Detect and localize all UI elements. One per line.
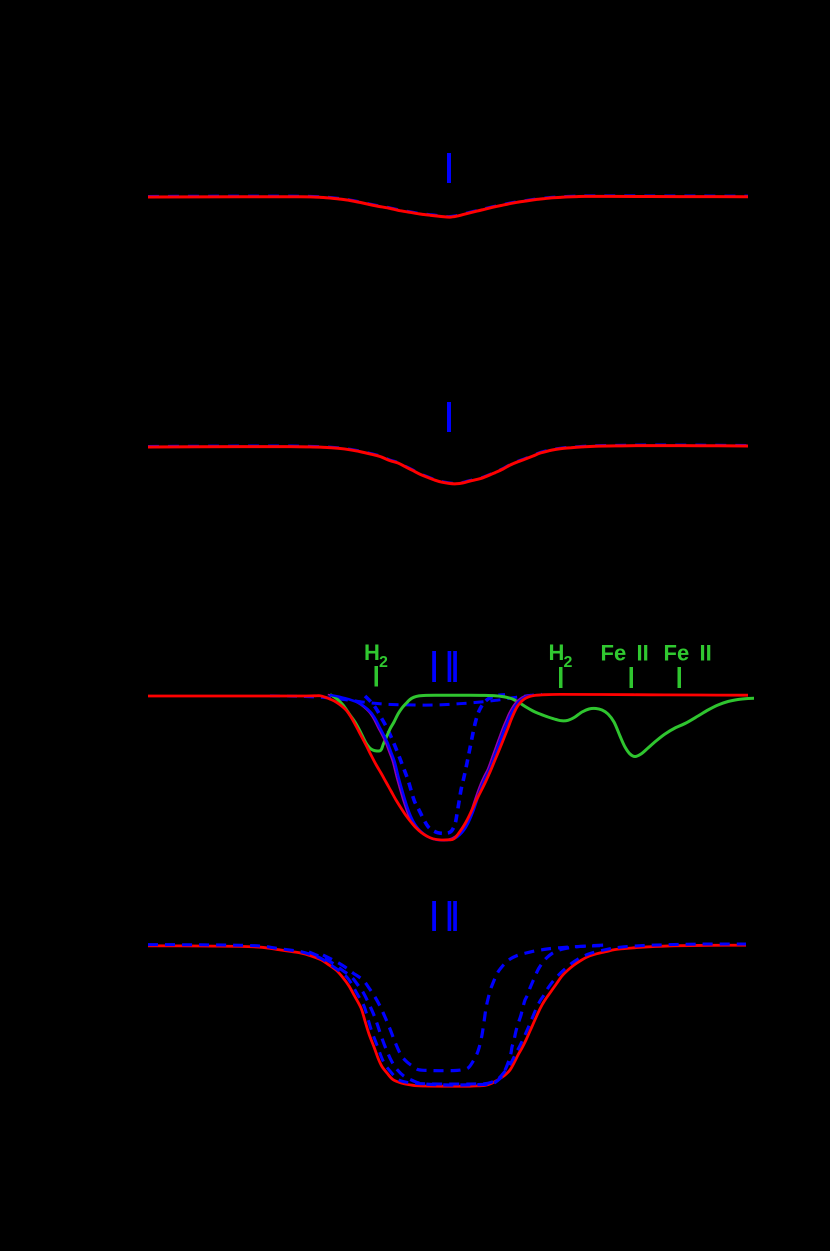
panel 2 blue tick — [447, 402, 451, 432]
panel 4 blue tick 2 — [448, 901, 452, 931]
panel 4 blue tick 1 — [432, 901, 436, 931]
panel 2 blue dashed model curve — [148, 445, 748, 483]
panel 3 green tick Fe II 2 — [678, 667, 682, 688]
panel 3 blue dashed deep component — [365, 695, 505, 834]
panel 1 blue dashed model curve — [148, 196, 748, 217]
svg-text:2: 2 — [564, 654, 573, 671]
panel 3 violet fringe of total fit — [328, 695, 531, 840]
panel 3 red spectrum curve — [148, 694, 748, 840]
panel 4 blue dashed widest model — [148, 944, 746, 1084]
panel 4 blue dashed middle model — [309, 945, 610, 1085]
panel 3 green tick H2 right — [559, 667, 563, 688]
panel 3 blue tick 3 — [453, 651, 457, 682]
panel 3 blue solid total-fit curve — [330, 695, 533, 840]
svg-text:H: H — [364, 640, 380, 665]
panel 3 blue dashed shallow component — [270, 694, 542, 705]
panel 4 blue tick 3 — [453, 901, 457, 931]
panel 4 red spectrum curve — [148, 945, 746, 1086]
panel 2 red spectrum curve — [148, 446, 748, 484]
panel 3 green tick H2 left — [375, 666, 379, 687]
panel 3 green absorption curve — [330, 695, 754, 757]
svg-text:II: II — [700, 641, 712, 666]
svg-text:II: II — [637, 641, 649, 666]
svg-text:Fe: Fe — [601, 641, 627, 666]
svg-text:2: 2 — [379, 654, 388, 671]
panel 3 green tick Fe II 1 — [630, 667, 634, 688]
panel 4 blue dashed narrow model — [323, 946, 600, 1071]
svg-text:Fe: Fe — [664, 641, 690, 666]
svg-text:H: H — [549, 640, 565, 665]
panel 3 blue tick 1 — [432, 651, 436, 682]
panel 1 blue tick — [447, 153, 451, 183]
panel 3 blue tick 2 — [448, 651, 452, 682]
panel 1 red spectrum curve — [148, 196, 748, 217]
